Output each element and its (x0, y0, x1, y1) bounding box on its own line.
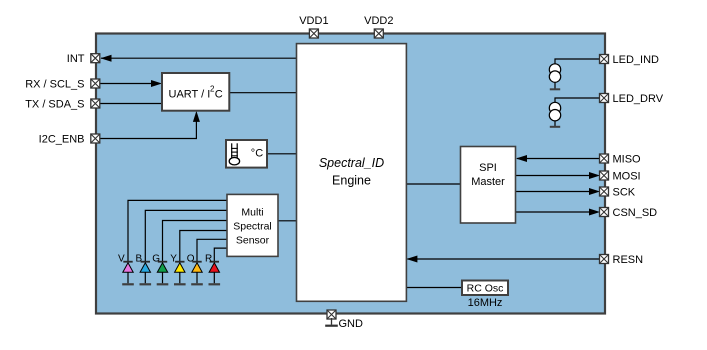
Spectral_ID Engine block U1 (297, 44, 407, 302)
pin INT (91, 54, 100, 63)
svg-text:LED_IND: LED_IND (613, 54, 660, 66)
pin CSN_SD (600, 208, 609, 217)
svg-text:LED_DRV: LED_DRV (613, 93, 664, 105)
pin I2C_ENB (91, 134, 100, 143)
svg-text:RC Osc: RC Osc (467, 282, 504, 294)
wire LED_DRV net (555, 98, 600, 102)
svg-text:R: R (205, 253, 212, 264)
current source I1 (LED_IND) (549, 64, 560, 90)
svg-text:SCK: SCK (613, 187, 636, 199)
wire LED_IND net (555, 59, 600, 64)
wire LED O channel (197, 239, 227, 261)
svg-text:SPI: SPI (479, 162, 497, 174)
svg-text:°C: °C (251, 148, 263, 160)
svg-text:GND: GND (339, 318, 364, 330)
wire TX/SDA_S to UART (100, 103, 162, 105)
svg-text:Spectral: Spectral (233, 221, 272, 233)
pin LED_IND (600, 55, 609, 64)
svg-text:V: V (118, 253, 125, 264)
svg-text:Multi: Multi (241, 207, 263, 219)
wire engine to RC oscillator (406, 287, 462, 289)
svg-text:MISO: MISO (613, 154, 642, 166)
svg-text:Spectral_ID: Spectral_ID (319, 156, 384, 170)
pin MOSI (600, 171, 609, 180)
svg-text:CSN_SD: CSN_SD (613, 207, 658, 219)
svg-text:16MHz: 16MHz (468, 297, 503, 309)
wire UART to engine (229, 92, 296, 94)
svg-text:I2C_ENB: I2C_ENB (39, 134, 85, 146)
pin SCK (600, 187, 609, 196)
LED D3 green (157, 262, 169, 285)
wire multi spectral sensor to engine (278, 220, 297, 222)
wire INT net (101, 55, 297, 62)
pin VDD2 (374, 29, 383, 38)
LED D6 red (209, 262, 221, 285)
svg-text:RX / SCL_S: RX / SCL_S (25, 79, 84, 91)
pin TX/SDA_S (91, 99, 100, 108)
svg-text:RESN: RESN (613, 254, 644, 266)
pin RESN (600, 255, 609, 264)
LED D4 yellow (174, 262, 186, 285)
ground symbol (325, 318, 338, 326)
wire I2C_ENB to UART bottom (100, 111, 200, 139)
svg-text:INT: INT (67, 53, 85, 65)
svg-text:G: G (152, 253, 160, 264)
svg-text:Engine: Engine (332, 174, 371, 188)
wire temp sensor to engine (267, 153, 297, 155)
svg-text:O: O (187, 253, 195, 264)
chip body block (96, 34, 605, 314)
pin MISO (600, 154, 609, 163)
wire MOSI net (516, 172, 601, 179)
temperature sensor block (226, 140, 267, 168)
svg-text:Y: Y (170, 253, 177, 264)
svg-text:VDD2: VDD2 (364, 15, 393, 27)
svg-text:TX / SDA_S: TX / SDA_S (25, 99, 84, 111)
svg-text:UART / I: UART / I (169, 89, 211, 101)
LED D1 violet (122, 262, 134, 285)
svg-text:MOSI: MOSI (613, 171, 641, 183)
LED D5 orange (191, 262, 203, 285)
wire RX/SCL_S to UART (100, 80, 162, 87)
wire engine to SPI master (406, 183, 460, 185)
wire CSN_SD net (516, 209, 601, 216)
wire LED Y channel (180, 231, 227, 262)
pin GND (327, 310, 336, 319)
RC oscillator block (462, 281, 508, 296)
pin VDD1 (309, 29, 318, 38)
pin RX/SCL_S (91, 79, 100, 88)
wire LED B channel (145, 210, 227, 261)
svg-text:VDD1: VDD1 (299, 15, 328, 27)
wire LED R channel (214, 248, 227, 261)
svg-text:C: C (215, 89, 223, 101)
wire LED G channel (163, 221, 228, 262)
current source I2 (LED_DRV) (549, 102, 560, 127)
svg-text:Master: Master (471, 176, 505, 188)
Multi Spectral Sensor block (227, 194, 278, 256)
wire MISO net (516, 155, 600, 162)
svg-text:Sensor: Sensor (236, 235, 270, 247)
LED D2 blue (140, 262, 152, 285)
pin LED_DRV (600, 94, 609, 103)
UART/I2C block U2 (162, 73, 229, 111)
wire LED V channel (128, 200, 227, 261)
SPI Master block U3 (461, 147, 516, 224)
wire SCK net (516, 188, 601, 195)
svg-text:B: B (136, 253, 143, 264)
wire RESN net (406, 256, 600, 263)
